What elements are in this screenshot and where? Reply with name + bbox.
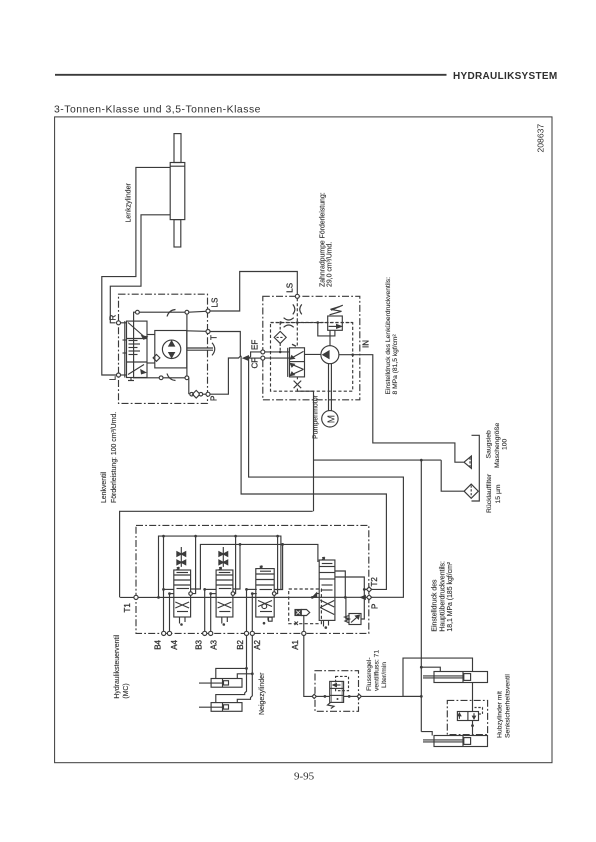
wire: steering T return to MC T2 xyxy=(210,332,386,590)
label Zahnradpumpe xyxy=(319,192,333,287)
svg-text:T1: T1 xyxy=(123,603,132,613)
svg-text:Flussregel-: Flussregel- xyxy=(366,657,373,691)
wire: port B4 riser xyxy=(162,536,174,631)
svg-text:9-95: 9-95 xyxy=(294,770,315,782)
wire: lower lift cylinder feed xyxy=(421,732,432,736)
header rule xyxy=(55,74,447,76)
pump inner dashed box xyxy=(271,323,353,392)
drawing number 208637 xyxy=(536,124,546,153)
header text HYDRAULIKSYSTEM xyxy=(453,71,558,82)
wire: B2 down to tilt cylinders xyxy=(216,636,248,703)
svg-text:EF: EF xyxy=(251,340,260,350)
svg-text:ventilfluss: 71: ventilfluss: 71 xyxy=(374,650,381,691)
cylinder: lift cylinder lower xyxy=(423,736,488,747)
safety valve xyxy=(457,683,482,736)
motor M circle xyxy=(322,411,338,427)
wire: CF to steering P xyxy=(210,356,241,394)
check valve on P gallery before section 4 xyxy=(311,593,319,599)
svg-text:B3: B3 xyxy=(195,639,204,649)
section 4 right bridges to P and T2 xyxy=(335,571,367,599)
wire: flow regulator to lift junction xyxy=(361,695,421,697)
orifice 2 on pilot line xyxy=(284,318,298,346)
cylinder: lift cylinder upper (Hubzylinder) xyxy=(423,672,488,683)
wire: A1 to flow regulator xyxy=(304,636,312,697)
wire: pump suction IN xyxy=(339,353,464,462)
label R xyxy=(109,315,118,321)
pilot line horizontal xyxy=(271,321,353,324)
valve: Lenkventil dash-dot enclosure xyxy=(119,294,208,403)
pump unit dash-dot enclosure xyxy=(263,296,360,400)
label Flussregelventil xyxy=(366,650,388,691)
wire: priority valve tank line down xyxy=(297,391,314,511)
node L xyxy=(117,373,127,377)
relief valve: Lenkueberdruckventil xyxy=(317,305,343,336)
label Hydrauliksteuerventil (MC) xyxy=(114,634,130,698)
wire: upper lift cylinder feed xyxy=(421,667,440,671)
svg-text:Hauptüberdruckventils:: Hauptüberdruckventils: xyxy=(439,561,446,632)
suction strainer xyxy=(464,456,471,468)
svg-text:T2: T2 xyxy=(370,577,379,587)
svg-text:R: R xyxy=(109,315,118,321)
svg-text:3-Tonnen-Klasse und 3,5-Tonnen: 3-Tonnen-Klasse und 3,5-Tonnen-Klasse xyxy=(54,105,261,116)
orbitrol outer frame xyxy=(134,310,189,381)
wire: MC T1 return loop xyxy=(120,511,313,597)
check valves above section 2 xyxy=(219,547,228,567)
valve section 3 (B2/A2 spool) xyxy=(256,566,276,625)
orifice 1 on LS pilot xyxy=(293,298,302,322)
svg-text:A3: A3 xyxy=(210,639,219,649)
wire: return to filter xyxy=(314,459,464,492)
svg-text:18,1 MPa (185 kgf/cm²: 18,1 MPa (185 kgf/cm² xyxy=(447,561,454,631)
wire: EF to MC P xyxy=(249,352,404,597)
svg-text:Zahnradpumpe Förderleistung:: Zahnradpumpe Förderleistung: xyxy=(319,192,326,287)
svg-text:15 µm: 15 µm xyxy=(495,484,502,503)
wire: cylinder top port to steering valve L xyxy=(102,167,170,375)
svg-text:(MC): (MC) xyxy=(123,683,130,698)
wire: port B2 riser xyxy=(245,588,257,631)
label Ruecklauffilter xyxy=(486,473,502,513)
label LS (pump) xyxy=(286,283,295,293)
flow regulator valve (Flussregelventil) xyxy=(312,671,361,712)
valve section 2 (B3/A3 spool) xyxy=(216,567,235,626)
MC bottom ports xyxy=(162,631,306,635)
svg-text:LS: LS xyxy=(286,283,295,293)
label T xyxy=(210,335,219,340)
label Hubzylinder xyxy=(496,674,511,738)
node T2 xyxy=(367,587,372,592)
drawing frame xyxy=(55,117,552,763)
return filter diamond xyxy=(464,484,478,498)
svg-text:T: T xyxy=(210,335,219,340)
main control valve dash-dot enclosure (MC) xyxy=(136,525,369,633)
check valve at steering P xyxy=(189,378,206,398)
wire: lift supply main drop xyxy=(420,460,423,731)
section 3 right bridge xyxy=(274,536,282,594)
svg-text:208637: 208637 xyxy=(536,124,546,153)
label CF xyxy=(251,358,260,369)
valve: orbitrol steering spool xyxy=(125,321,147,380)
steering wheel shaft xyxy=(187,343,215,356)
MC feed line lower xyxy=(200,543,318,585)
svg-text:HYDRAULIKSYSTEM: HYDRAULIKSYSTEM xyxy=(453,71,558,82)
svg-text:A1: A1 xyxy=(291,639,300,649)
wire: A2 down to tilt cylinders xyxy=(237,636,253,703)
node T1 xyxy=(134,595,138,599)
label T2 xyxy=(370,577,379,587)
svg-text:Hubzylinder mit: Hubzylinder mit xyxy=(496,691,503,738)
valve section 1 (B4/A4 spool) xyxy=(174,567,193,626)
svg-text:B2: B2 xyxy=(236,639,245,649)
wire: A1 riser xyxy=(303,616,305,632)
node LS (pump) xyxy=(295,294,299,298)
svg-text:CF: CF xyxy=(251,358,260,369)
priority valve (flow divider) xyxy=(288,344,305,391)
wire: MC main gallery T1-P xyxy=(120,596,366,598)
svg-text:29,0 cm³/Umd.: 29,0 cm³/Umd. xyxy=(327,242,334,287)
title text xyxy=(54,105,261,116)
section 1 right bridge xyxy=(191,536,201,594)
svg-text:Liter/min: Liter/min xyxy=(381,662,388,688)
svg-text:8 MPa (81,5 kgf/cm²: 8 MPa (81,5 kgf/cm² xyxy=(392,334,399,395)
section 2 right bridge xyxy=(233,536,240,594)
svg-text:Saugsieb: Saugsieb xyxy=(486,430,493,459)
cylinder: tilt cylinder upper (Neigezylinder) xyxy=(199,679,242,688)
wire: port A3 riser xyxy=(209,592,216,631)
svg-text:P: P xyxy=(210,396,219,401)
label: Lenkzylinder xyxy=(126,183,133,223)
port labels xyxy=(154,639,301,649)
pump motor shaft xyxy=(329,364,332,411)
metering unit (gerotor) xyxy=(123,331,187,368)
check valves above section 1 xyxy=(177,547,186,567)
svg-text:Lenkventil: Lenkventil xyxy=(101,472,108,503)
label: Lenkventil Foerderleistung xyxy=(101,412,118,503)
wire: port A2 riser xyxy=(251,592,257,631)
svg-text:L: L xyxy=(109,376,118,381)
cylinder: tilt cylinder lower xyxy=(199,703,242,712)
node R xyxy=(117,321,127,325)
pump symbol xyxy=(305,330,339,363)
svg-text:Einstelldruck des: Einstelldruck des xyxy=(432,579,439,632)
CF port node xyxy=(261,356,290,360)
safety valve enclosure (Senksicherheitsventil) xyxy=(447,700,487,734)
valve section 4 (A1 lift spool) xyxy=(319,557,335,629)
svg-text:Neigezylinder: Neigezylinder xyxy=(259,672,266,715)
wire: cylinder bottom port to steering valve R xyxy=(110,215,170,323)
pilot box for A1 section xyxy=(289,589,322,625)
node LS (steering) xyxy=(189,309,210,313)
node P (steering) xyxy=(206,392,210,396)
cylinder: Lenkzylinder (steering cylinder) xyxy=(170,134,185,247)
node P (MC) xyxy=(361,595,372,600)
label Saugsieb xyxy=(486,422,509,468)
label Pumpenmotor xyxy=(313,394,320,439)
svg-text:P: P xyxy=(371,604,380,609)
wire: port A4 riser xyxy=(168,592,174,631)
svg-text:A2: A2 xyxy=(253,639,262,649)
pilot filter diamond xyxy=(274,323,286,354)
svg-text:Förderleistung: 100 cm³/Umd.: Förderleistung: 100 cm³/Umd. xyxy=(111,412,118,503)
svg-text:M: M xyxy=(326,415,337,423)
svg-text:Rücklauffilter: Rücklauffilter xyxy=(486,473,493,513)
svg-text:100: 100 xyxy=(502,438,509,450)
svg-text:Hydrauliksteuerventil: Hydrauliksteuerventil xyxy=(114,634,121,698)
label LS (steering) xyxy=(211,298,220,308)
svg-text:Lenkzylinder: Lenkzylinder xyxy=(126,183,133,223)
MC feed line upper xyxy=(157,535,281,599)
tank bracket xyxy=(472,435,480,501)
svg-text:B4: B4 xyxy=(154,639,163,649)
label IN xyxy=(362,340,371,348)
wire: CF stub with arrow xyxy=(243,356,261,360)
label P (MC) xyxy=(371,604,380,609)
label Einstelldruck Hauptueberdruckventil xyxy=(432,561,455,632)
label Neigezylinder xyxy=(259,672,266,715)
wire: lift branch upper U xyxy=(403,658,473,696)
svg-text:LS: LS xyxy=(211,298,220,308)
label T1 xyxy=(123,603,132,613)
svg-text:IN: IN xyxy=(362,340,371,348)
node T xyxy=(187,330,210,334)
wire: port B3 riser xyxy=(203,588,216,631)
label EF xyxy=(251,340,260,350)
main relief valve (Hauptueberdruckventil) xyxy=(345,589,365,624)
svg-text:Maschengröße: Maschengröße xyxy=(494,422,501,468)
EF port node xyxy=(261,350,290,354)
label Einstelldruck Lenkueberdruckventil xyxy=(385,277,399,395)
svg-text:A4: A4 xyxy=(170,639,179,649)
svg-text:Senksicherheitsventil: Senksicherheitsventil xyxy=(504,674,511,738)
label L xyxy=(109,376,118,381)
page number xyxy=(294,770,315,782)
label P (steering) xyxy=(210,396,219,401)
wire: LS steering to pump LS xyxy=(210,272,297,312)
